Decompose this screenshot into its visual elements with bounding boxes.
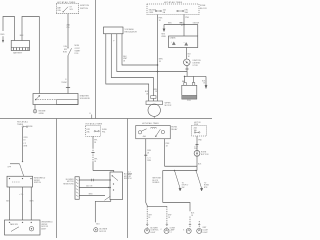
svg-text:BUTTON: BUTTON bbox=[201, 154, 209, 156]
svg-text:18: 18 bbox=[148, 217, 150, 219]
svg-text:ILLUM: ILLUM bbox=[203, 230, 209, 232]
svg-text:ENGINE: ENGINE bbox=[39, 110, 47, 112]
svg-text:18: 18 bbox=[159, 20, 161, 22]
svg-text:18: 18 bbox=[188, 56, 190, 58]
svg-text:SOLENOID: SOLENOID bbox=[80, 98, 91, 100]
svg-text:BLOWER: BLOWER bbox=[99, 228, 107, 230]
svg-text:HORN: HORN bbox=[171, 127, 177, 129]
svg-text:MOTOR: MOTOR bbox=[165, 105, 172, 107]
svg-text:18: 18 bbox=[94, 161, 96, 163]
svg-text:IGNITION: IGNITION bbox=[80, 5, 89, 7]
svg-text:TERM: TERM bbox=[61, 82, 67, 84]
svg-text:BLOCK: BLOCK bbox=[200, 8, 207, 10]
svg-text:PPL: PPL bbox=[94, 140, 97, 142]
svg-text:PPL: PPL bbox=[94, 158, 97, 160]
svg-text:DISTRIB: DISTRIB bbox=[193, 63, 201, 65]
svg-text:TIMES: TIMES bbox=[17, 124, 24, 126]
svg-text:RUN: RUN bbox=[63, 51, 68, 53]
svg-text:COIL: COIL bbox=[187, 100, 191, 102]
svg-text:MOTOR: MOTOR bbox=[124, 176, 132, 178]
svg-text:YEL: YEL bbox=[66, 27, 70, 29]
svg-text:STOP LT: STOP LT bbox=[182, 185, 189, 187]
svg-text:C 2: C 2 bbox=[23, 143, 26, 145]
svg-text:ORN: ORN bbox=[23, 146, 28, 148]
svg-text:FUSE: FUSE bbox=[200, 5, 206, 7]
svg-text:SEE FUSE: SEE FUSE bbox=[152, 178, 161, 180]
svg-text:BLOWER: BLOWER bbox=[150, 227, 158, 229]
svg-text:LIGHT: LIGHT bbox=[150, 232, 155, 234]
svg-text:IGNITION: IGNITION bbox=[193, 60, 202, 62]
svg-text:MOTOR: MOTOR bbox=[67, 181, 74, 183]
svg-text:UTOR: UTOR bbox=[193, 65, 199, 67]
svg-text:18: 18 bbox=[191, 215, 193, 217]
svg-text:RUN: RUN bbox=[194, 124, 199, 126]
svg-text:18: 18 bbox=[159, 61, 161, 63]
svg-text:SWITCH: SWITCH bbox=[34, 182, 42, 184]
svg-text:CONTROL: CONTROL bbox=[150, 230, 158, 232]
svg-text:BLOCK: BLOCK bbox=[152, 180, 159, 182]
svg-text:ORN: ORN bbox=[147, 150, 152, 152]
svg-text:18: 18 bbox=[147, 152, 149, 154]
svg-text:WINDSHIELD: WINDSHIELD bbox=[41, 221, 53, 223]
svg-text:WIPER: WIPER bbox=[41, 224, 48, 226]
svg-text:ORN: ORN bbox=[23, 137, 28, 139]
svg-text:FUSE: FUSE bbox=[102, 129, 108, 131]
svg-text:18: 18 bbox=[166, 145, 168, 147]
svg-text:PNL: PNL bbox=[102, 132, 106, 134]
svg-text:INST: INST bbox=[203, 227, 207, 229]
svg-text:DOME: DOME bbox=[170, 227, 176, 229]
svg-text:18: 18 bbox=[155, 91, 157, 93]
svg-text:GRN: GRN bbox=[29, 201, 34, 203]
svg-text:18: 18 bbox=[181, 25, 183, 27]
svg-text:18: 18 bbox=[168, 217, 170, 219]
svg-text:HOT IN: HOT IN bbox=[194, 122, 201, 124]
svg-text:IGN SW: IGN SW bbox=[193, 22, 200, 24]
svg-text:WIPER: WIPER bbox=[34, 180, 41, 182]
svg-text:HORN: HORN bbox=[204, 185, 210, 187]
svg-text:RESISTORS: RESISTORS bbox=[63, 184, 74, 186]
svg-text:WINDSHIELD: WINDSHIELD bbox=[34, 177, 46, 179]
svg-text:MOTOR: MOTOR bbox=[41, 226, 48, 228]
svg-text:ORN: ORN bbox=[147, 160, 152, 162]
svg-text:SWITCH: SWITCH bbox=[124, 178, 132, 180]
svg-text:18: 18 bbox=[123, 61, 125, 63]
svg-text:LT: LT bbox=[170, 232, 172, 234]
svg-text:C 2: C 2 bbox=[128, 171, 131, 173]
svg-text:SW: SW bbox=[64, 49, 67, 51]
svg-text:GRND: GRND bbox=[39, 113, 45, 115]
svg-text:18: 18 bbox=[94, 142, 96, 144]
svg-text:WIPER: WIPER bbox=[165, 103, 172, 105]
svg-text:BLOWER: BLOWER bbox=[66, 179, 74, 181]
svg-text:LIGHT: LIGHT bbox=[203, 232, 208, 234]
svg-text:18: 18 bbox=[146, 94, 148, 96]
svg-text:MOM: MOM bbox=[75, 45, 80, 47]
svg-text:SW: SW bbox=[182, 187, 185, 189]
svg-text:SWITCH: SWITCH bbox=[80, 8, 88, 10]
svg-text:HORN: HORN bbox=[201, 151, 207, 153]
svg-text:MOTOR: MOTOR bbox=[99, 231, 106, 233]
svg-text:RED: RED bbox=[0, 34, 5, 36]
svg-text:SOL: SOL bbox=[70, 9, 74, 11]
svg-text:18: 18 bbox=[23, 140, 25, 142]
